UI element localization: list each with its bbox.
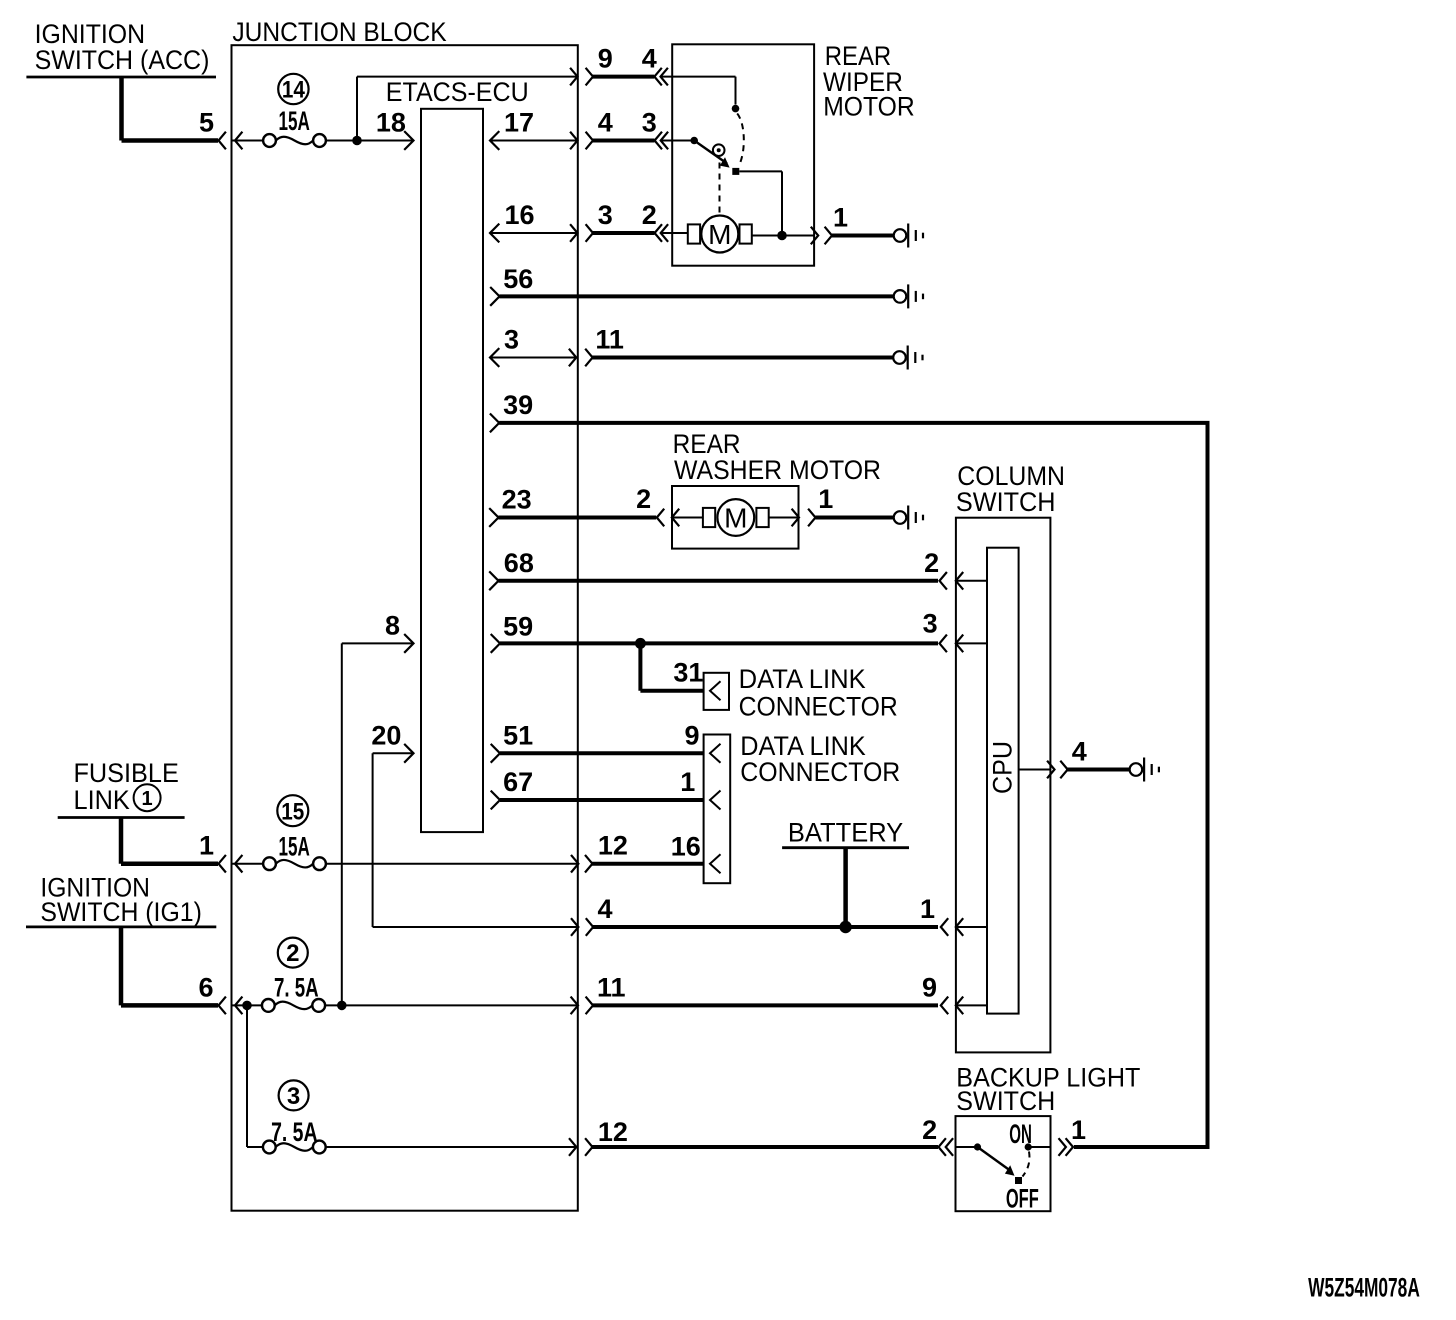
pin 3 label (column) xyxy=(923,609,938,639)
ground (rear wiper motor) xyxy=(894,224,923,248)
svg-text:SWITCH: SWITCH xyxy=(956,1086,1055,1116)
svg-text:JUNCTION BLOCK: JUNCTION BLOCK xyxy=(232,17,446,47)
ground (column switch) xyxy=(1130,758,1159,782)
ignition switch (ACC) label xyxy=(35,19,210,75)
fuse 15 designator xyxy=(277,795,308,826)
ETACS-ECU box xyxy=(421,109,483,832)
battery bus bar xyxy=(782,846,909,849)
ground (pin 56) xyxy=(894,284,923,308)
drawing code W5Z54M078A xyxy=(1308,1272,1420,1302)
svg-text:ON: ON xyxy=(1009,1119,1032,1149)
arrow at ETACS pin 23 xyxy=(489,508,498,527)
svg-text:BATTERY: BATTERY xyxy=(788,817,903,847)
connector chevrons backup switch pin 1 xyxy=(1059,1138,1074,1156)
pin 2 label (motor feed) xyxy=(642,200,657,230)
battery label xyxy=(788,817,903,847)
pin 3 label (ETACS) xyxy=(504,325,519,355)
wire fusible link feed xyxy=(121,818,218,864)
svg-text:M: M xyxy=(708,219,731,250)
connector chevrons column switch pin 4 xyxy=(1047,761,1068,779)
ground (washer motor) xyxy=(894,506,923,530)
wire ETACS 3 to junction block edge xyxy=(490,357,578,359)
junction node pin 59 branch xyxy=(635,638,646,649)
svg-text:SWITCH (IG1): SWITCH (IG1) xyxy=(40,897,202,927)
wiper park switch arm xyxy=(694,141,729,168)
connector chevrons into washer motor pin 2 xyxy=(657,509,679,527)
data link connector 2 label xyxy=(740,731,900,787)
pin 5 label xyxy=(199,108,214,138)
wire fuse 2 to junction block edge xyxy=(325,1004,578,1006)
connector arrows pin 9 xyxy=(570,68,593,86)
svg-text:16: 16 xyxy=(505,200,535,230)
svg-text:CONNECTOR: CONNECTOR xyxy=(740,757,900,787)
pin 9 label xyxy=(598,44,613,74)
pin 1 label (wiper motor) xyxy=(833,203,848,233)
junction node wiper motor output xyxy=(777,231,787,241)
connector arrows pin 11 xyxy=(569,349,593,367)
wire ETACS 68 to column switch xyxy=(499,579,939,583)
backup switch OFF contact xyxy=(1015,1177,1022,1184)
wire ETACS 56 to ground xyxy=(500,294,894,298)
fuse 2 designator xyxy=(278,938,308,968)
connector arrows pin 4 (battery line) xyxy=(571,918,593,936)
data link connector 1 box xyxy=(704,673,729,710)
fuse 2 rating 7.5A xyxy=(274,973,319,1003)
backup switch input contact xyxy=(974,1143,981,1150)
wire wiper motor to ground xyxy=(832,234,894,238)
svg-text:SWITCH: SWITCH xyxy=(956,487,1056,517)
wire into wiper switch contact xyxy=(661,140,694,142)
connector chevrons column switch pin 3 xyxy=(940,635,964,653)
fuse 14 designator xyxy=(278,74,308,104)
pin 4 label xyxy=(642,44,657,74)
backup switch dashed link xyxy=(1023,1152,1030,1177)
wire ETACS 51 to data link connector xyxy=(500,751,704,755)
wire column pin 3 to CPU xyxy=(956,642,987,644)
svg-text:12: 12 xyxy=(598,831,628,861)
wire fuse 14 to ETACS pin 18 xyxy=(326,140,413,142)
pin 16 label (DLC) xyxy=(671,832,701,862)
connector arrows at junction block pin 5 xyxy=(219,132,243,150)
wiper park switch dashed cam arc xyxy=(737,114,744,165)
connector arrows pin 3 xyxy=(570,224,593,242)
pin 12 label (backup) xyxy=(598,1117,628,1147)
svg-text:1: 1 xyxy=(818,484,833,514)
arrow at ETACS pin 3 xyxy=(490,348,499,367)
pin 9 label (column) xyxy=(922,972,937,1002)
wire pin 20 line inside junction block xyxy=(373,926,578,928)
arrow at ETACS pin 56 xyxy=(490,287,499,306)
wire IG1 branch riser xyxy=(246,1005,248,1147)
wiper park switch input contact xyxy=(690,137,698,145)
svg-text:3: 3 xyxy=(287,1083,300,1110)
wire ETACS 23 to washer motor xyxy=(499,516,657,520)
svg-text:18: 18 xyxy=(376,108,406,138)
svg-text:4: 4 xyxy=(598,108,613,138)
CPU box xyxy=(987,548,1019,1014)
rear wiper motor brushes xyxy=(688,224,752,243)
column switch label xyxy=(956,461,1065,517)
svg-text:1: 1 xyxy=(1071,1115,1086,1145)
wire fuse 3 to junction block edge xyxy=(326,1146,578,1148)
pin 3 label (motor feed) xyxy=(598,200,613,230)
pin 18 label xyxy=(376,108,406,138)
wire 11 to ground xyxy=(592,356,893,360)
junction node IG1 branch xyxy=(242,1001,252,1011)
arrow at ETACS pin 16 xyxy=(490,224,499,243)
svg-text:1: 1 xyxy=(142,788,153,810)
svg-text:8: 8 xyxy=(385,610,400,640)
wire ETACS pin 8 riser xyxy=(342,643,413,1005)
pin 59 label xyxy=(503,612,533,642)
pin 51 label xyxy=(503,720,533,750)
connector arrows pin 11 (IG1) xyxy=(571,997,593,1015)
wire riser fuse 14 to top line xyxy=(356,77,358,141)
wire column pin 1 to CPU xyxy=(956,926,987,928)
wire column 4 to ground xyxy=(1066,768,1130,772)
pin 2 label (column) xyxy=(924,548,939,578)
pin 2 label (backup) xyxy=(922,1115,937,1145)
wire washer motor to ground xyxy=(816,516,894,520)
wiper park switch upper contact xyxy=(732,105,740,113)
connector arrows at junction block pin 6 xyxy=(219,997,243,1015)
junction node battery xyxy=(839,921,851,933)
svg-text:15A: 15A xyxy=(279,831,310,861)
pin 68 label xyxy=(504,548,534,578)
pin 39 label xyxy=(503,390,533,420)
wiper park cam circle xyxy=(713,144,725,156)
svg-text:2: 2 xyxy=(922,1115,937,1145)
wire ACC feed to junction block xyxy=(122,77,219,141)
pin 31 label xyxy=(673,658,703,688)
wire into fuse 15 xyxy=(232,863,264,865)
fuse 3 rating 7.5A xyxy=(271,1117,317,1147)
OFF label xyxy=(1006,1184,1039,1214)
wire ETACS 59 to column switch xyxy=(500,641,938,645)
svg-text:17: 17 xyxy=(504,108,534,138)
arrow at ETACS pin 67 xyxy=(491,791,500,810)
pin 1 label (washer) xyxy=(818,484,833,514)
column switch box xyxy=(956,518,1051,1053)
connector chevrons wiper motor pin 1 xyxy=(811,227,832,245)
pin 16 label xyxy=(505,200,535,230)
backup switch ON contact xyxy=(1025,1143,1032,1150)
svg-text:CONNECTOR: CONNECTOR xyxy=(739,691,898,721)
svg-text:ETACS-ECU: ETACS-ECU xyxy=(386,77,529,107)
svg-text:68: 68 xyxy=(504,548,534,578)
chevron inside DLC pin 16 xyxy=(710,854,721,873)
wire ETACS 17 to junction block edge xyxy=(490,140,578,142)
fuse 3 xyxy=(263,1141,326,1154)
backup switch arm xyxy=(978,1147,1015,1176)
svg-text:56: 56 xyxy=(503,264,533,294)
svg-text:M: M xyxy=(724,502,747,533)
fusible link bus bar xyxy=(58,816,185,819)
rear washer motor brushes xyxy=(703,508,769,527)
svg-text:1: 1 xyxy=(680,767,695,797)
wire fuse 15 to junction block edge xyxy=(326,863,578,865)
connector arrows at junction block pin 1 xyxy=(219,855,243,873)
ON label xyxy=(1009,1119,1032,1149)
wire top line inside junction block xyxy=(357,76,578,78)
wire into fuse 3 xyxy=(247,1146,263,1148)
arrow into ETACS pin 18 xyxy=(404,131,413,150)
arrow at ETACS pin 39 xyxy=(490,414,499,433)
pin 6 label xyxy=(198,972,213,1002)
svg-text:7. 5A: 7. 5A xyxy=(274,973,319,1003)
svg-text:23: 23 xyxy=(502,485,532,515)
connector chevrons column switch pin 1 xyxy=(941,918,963,936)
ignition switch (IG1) label xyxy=(40,873,202,928)
connector arrows pin 12 xyxy=(571,855,592,873)
svg-text:9: 9 xyxy=(922,972,937,1002)
pin 3 label (harness) xyxy=(642,108,657,138)
wire to wiper motor brush xyxy=(661,232,688,234)
fuse 15 rating 15A xyxy=(279,831,310,861)
svg-text:4: 4 xyxy=(598,894,613,924)
connector chevrons column switch pin 9 xyxy=(941,997,963,1015)
svg-text:14: 14 xyxy=(282,77,306,104)
connector arrows pin 12 (backup) xyxy=(569,1138,593,1156)
arrow at ETACS pin 59 xyxy=(491,634,500,653)
connector chevrons into rear wiper motor pin 3 xyxy=(655,132,669,150)
svg-text:MOTOR: MOTOR xyxy=(823,92,915,122)
svg-text:39: 39 xyxy=(503,390,533,420)
wiper park cam dashed link xyxy=(719,163,721,214)
fuse 14 rating 15A xyxy=(279,106,310,136)
connector chevrons backup switch pin 2 xyxy=(939,1138,954,1156)
wire column pin 2 to CPU xyxy=(956,580,987,582)
svg-text:SWITCH (ACC): SWITCH (ACC) xyxy=(35,45,210,75)
wire column pin 9 to CPU xyxy=(956,1004,987,1006)
svg-text:DATA LINK: DATA LINK xyxy=(739,664,866,694)
svg-text:1: 1 xyxy=(199,831,214,861)
rear wiper motor box xyxy=(672,44,814,265)
chevron inside data link connector 1 xyxy=(710,681,721,700)
svg-text:2: 2 xyxy=(636,484,651,514)
pin 67 label xyxy=(503,767,533,797)
svg-text:3: 3 xyxy=(504,325,519,355)
arrow into ETACS pin 8 xyxy=(404,634,413,653)
svg-text:LINK: LINK xyxy=(74,785,130,815)
wire CPU pin 4 lead xyxy=(1019,769,1051,771)
wire IG1 feed xyxy=(121,927,218,1006)
wire 3-2 harness xyxy=(592,231,654,235)
arrow at ETACS pin 17 xyxy=(490,131,499,150)
svg-text:3: 3 xyxy=(923,609,938,639)
pin 20 label xyxy=(371,720,401,750)
svg-text:2: 2 xyxy=(286,940,299,967)
svg-text:4: 4 xyxy=(642,44,657,74)
svg-text:CPU: CPU xyxy=(988,741,1018,794)
wire ETACS 67 to data link connector xyxy=(500,798,704,802)
pin 4 label (column out) xyxy=(1072,737,1087,767)
svg-text:WASHER MOTOR: WASHER MOTOR xyxy=(674,455,881,485)
rear wiper motor M xyxy=(701,216,738,253)
wire washer motor lead-in xyxy=(672,517,703,519)
pin 12 label xyxy=(598,831,628,861)
svg-text:20: 20 xyxy=(371,720,401,750)
svg-text:1: 1 xyxy=(920,894,935,924)
pin 1 label (backup out) xyxy=(1071,1115,1086,1145)
data link connector 1 label xyxy=(739,664,898,721)
connector chevrons column switch pin 2 xyxy=(940,572,964,590)
fuse 2 xyxy=(262,999,325,1012)
pin 9 label (DLC) xyxy=(684,720,699,750)
chevron inside DLC pin 9 xyxy=(710,744,721,763)
svg-text:FUSIBLE: FUSIBLE xyxy=(74,758,179,788)
pin 1 label xyxy=(199,831,214,861)
pin 4 label (battery line) xyxy=(598,894,613,924)
arrow at ETACS pin 68 xyxy=(489,571,498,590)
pin 56 label xyxy=(503,264,533,294)
wire 39 loop right xyxy=(499,423,1207,1147)
wire into rear wiper motor xyxy=(661,76,736,78)
svg-text:67: 67 xyxy=(503,767,533,797)
svg-text:W5Z54M078A: W5Z54M078A xyxy=(1308,1272,1420,1302)
rear washer motor M xyxy=(717,499,754,536)
svg-text:OFF: OFF xyxy=(1006,1184,1039,1214)
ground (pin 11) xyxy=(893,346,922,370)
svg-text:12: 12 xyxy=(598,1117,628,1147)
pin 11 label xyxy=(595,325,624,355)
pin 17 label xyxy=(504,108,534,138)
svg-text:6: 6 xyxy=(198,972,213,1002)
rear washer motor box xyxy=(672,486,799,549)
rear wiper motor label xyxy=(823,41,915,121)
wire 4 to column switch pin 1 xyxy=(592,925,938,929)
svg-text:15: 15 xyxy=(281,798,304,825)
wire wiper park switch top contact xyxy=(735,77,737,105)
wire into fuse 14 xyxy=(232,140,264,142)
rear washer motor label xyxy=(673,429,881,485)
wire 9-4 harness xyxy=(592,75,654,79)
fuse 15 xyxy=(263,857,326,870)
connector chevrons into rear wiper motor pin 4 xyxy=(654,68,668,86)
CPU label xyxy=(988,741,1018,794)
junction node on fuse 14 output xyxy=(352,136,362,146)
pin 2 label (washer) xyxy=(636,484,651,514)
wire 11 to column switch pin 9 xyxy=(592,1003,938,1007)
svg-text:51: 51 xyxy=(503,720,533,750)
svg-text:2: 2 xyxy=(924,548,939,578)
wire washer motor lead-out xyxy=(769,517,799,519)
svg-text:4: 4 xyxy=(1072,737,1087,767)
arrow into ETACS pin 20 xyxy=(404,744,413,763)
backup light switch label xyxy=(956,1063,1140,1116)
wire into backup switch contact xyxy=(956,1146,978,1148)
svg-text:59: 59 xyxy=(503,612,533,642)
wire 4-3 harness xyxy=(592,139,654,143)
svg-text:2: 2 xyxy=(642,200,657,230)
circled 1 (fusible link) xyxy=(134,784,161,811)
svg-text:9: 9 xyxy=(684,720,699,750)
wire park switch to motor node xyxy=(739,171,782,235)
wire ETACS pin 20 riser xyxy=(373,753,413,927)
pin 23 label xyxy=(502,485,532,515)
data link connector 2 box xyxy=(704,735,731,884)
wiper park switch throw contact xyxy=(732,168,739,175)
svg-text:5: 5 xyxy=(199,108,214,138)
pin 4 label (harness) xyxy=(598,108,613,138)
ignition switch (ACC) bus bar xyxy=(26,76,216,79)
svg-text:31: 31 xyxy=(673,658,703,688)
junction block box xyxy=(232,45,578,1211)
svg-text:15A: 15A xyxy=(279,106,310,136)
pin 11 label (IG1) xyxy=(597,972,626,1002)
connector chevrons into rear wiper motor pin 2 xyxy=(655,224,669,242)
chevron inside DLC pin 1 xyxy=(710,791,721,810)
svg-text:16: 16 xyxy=(671,832,701,862)
pin 8 label xyxy=(385,610,400,640)
wire ETACS 16 to junction block edge xyxy=(490,232,578,234)
pin 1 label (column) xyxy=(920,894,935,924)
svg-text:11: 11 xyxy=(595,325,624,355)
arrow at ETACS pin 51 xyxy=(491,744,500,763)
svg-text:7. 5A: 7. 5A xyxy=(271,1117,317,1147)
svg-text:11: 11 xyxy=(597,972,626,1002)
wire into fuse 2 xyxy=(232,1004,264,1006)
wire battery drop xyxy=(843,848,848,927)
ignition switch (IG1) bus bar xyxy=(26,926,216,929)
fuse 14 xyxy=(263,134,326,147)
fuse 3 designator xyxy=(279,1080,309,1110)
svg-text:3: 3 xyxy=(598,200,613,230)
connector arrows pin 4 xyxy=(570,132,593,150)
svg-text:1: 1 xyxy=(833,203,848,233)
wire wiper motor output xyxy=(752,235,814,237)
connector chevrons washer motor pin 1 xyxy=(792,509,816,527)
ETACS-ECU label xyxy=(386,77,529,107)
wire 12-16 harness xyxy=(591,862,704,866)
svg-text:9: 9 xyxy=(598,44,613,74)
wire ON contact to box edge xyxy=(1028,1146,1050,1148)
wire 59 branch to data link connector xyxy=(640,643,703,690)
fusible link label xyxy=(74,758,179,815)
junction block label xyxy=(232,17,446,47)
svg-text:3: 3 xyxy=(642,108,657,138)
junction node pin 8 riser xyxy=(337,1001,347,1011)
wire 12 to backup light switch xyxy=(591,1145,938,1149)
backup light switch box xyxy=(956,1116,1051,1211)
pin 1 label (DLC) xyxy=(680,767,695,797)
